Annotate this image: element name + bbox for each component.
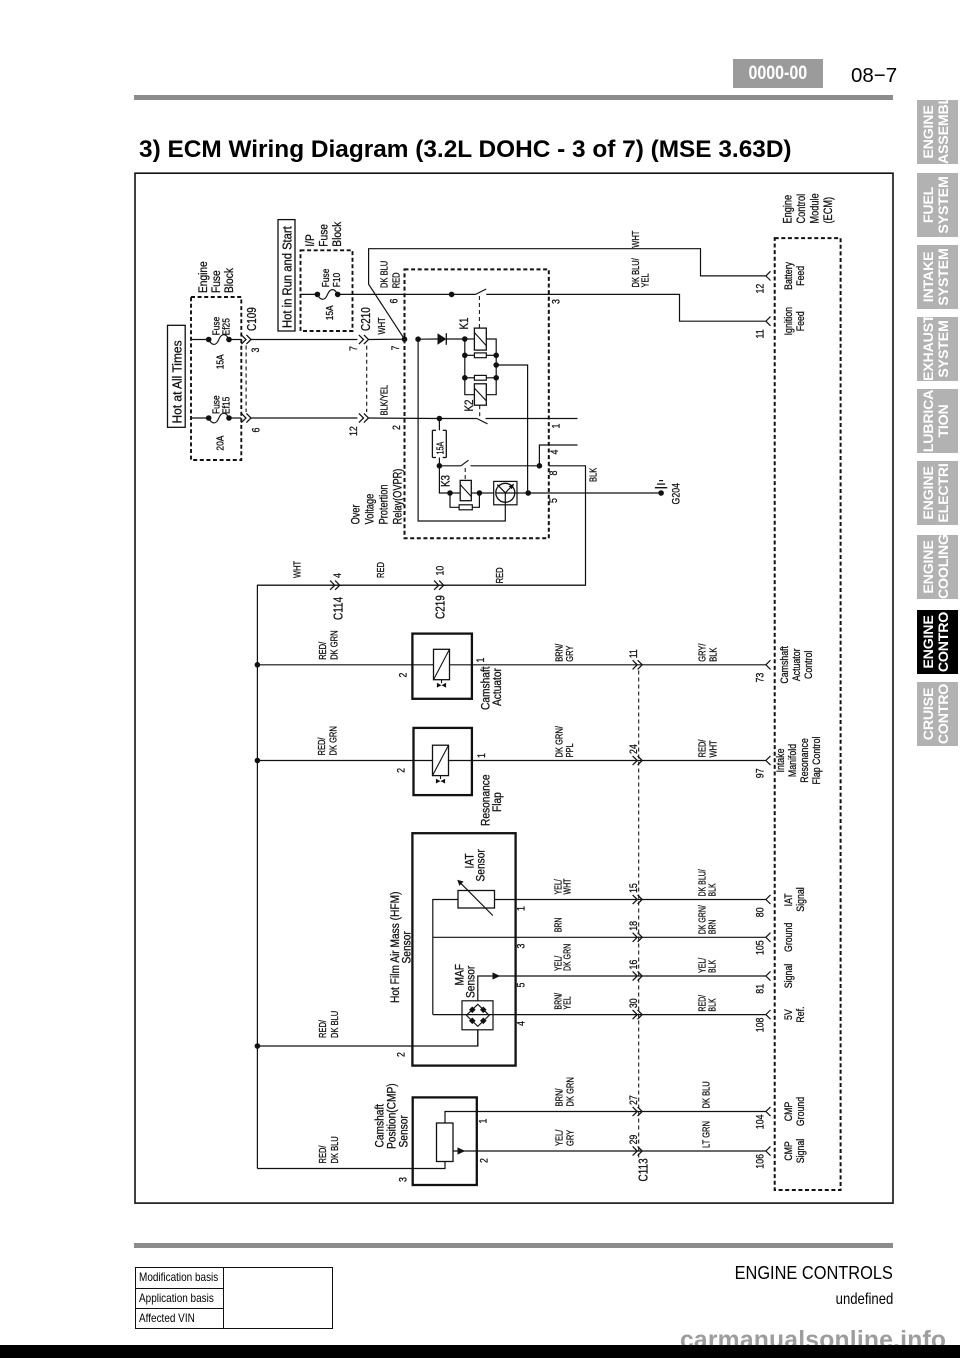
resistor R2 (parallel K2) [462, 375, 468, 381]
ECM pin 73 chevron [766, 660, 771, 669]
ECM pin 106 chevron [766, 1146, 771, 1155]
svg-text:I/P: I/P [304, 234, 317, 246]
ECM pin 11 chevron [766, 317, 771, 326]
svg-text:73: 73 [755, 672, 767, 682]
wire K3 coil feed from switch-node [439, 466, 450, 493]
node K3 switch feed [437, 463, 443, 469]
svg-text:6: 6 [389, 298, 401, 303]
page number 08-7 [851, 64, 897, 88]
ECM pin 97 chevron [766, 756, 771, 765]
svg-text:WHT: WHT [291, 560, 302, 578]
svg-text:Fuse: Fuse [210, 270, 223, 293]
svg-text:12: 12 [348, 426, 360, 436]
svg-text:Sensor: Sensor [401, 931, 414, 964]
ECM pin 80 chevron [766, 895, 771, 904]
node K1 coil left [462, 336, 468, 342]
connector C219 chevron pin 10 [434, 581, 444, 590]
svg-text:RED: RED [391, 272, 402, 288]
svg-text:6: 6 [251, 427, 263, 432]
svg-text:YEL: YEL [639, 273, 650, 287]
svg-text:Actuator: Actuator [491, 668, 504, 706]
svg-text:Over: Over [351, 504, 363, 524]
relay coil K1 [465, 338, 475, 340]
revision table [135, 1267, 333, 1329]
fuse Ef25 15A [206, 337, 212, 343]
svg-text:Feed: Feed [795, 266, 807, 286]
K2 switch on BLK/YEL wire [437, 416, 443, 422]
camshaft actuator box [412, 634, 472, 699]
C219/C113 connector dashed line [638, 671, 640, 1159]
svg-text:7: 7 [348, 346, 360, 351]
svg-text:C113: C113 [638, 1158, 651, 1181]
svg-text:C109: C109 [246, 307, 259, 331]
svg-text:Block: Block [223, 268, 236, 293]
K2 actuation dashed link [479, 405, 481, 417]
svg-text:8: 8 [548, 470, 560, 475]
transistor Q1 [479, 492, 493, 494]
wire down to transistor base [418, 339, 505, 521]
wire BLK to ground G204 [549, 492, 661, 494]
resonance flap solenoid [414, 760, 433, 762]
svg-text:4: 4 [332, 573, 344, 578]
label box Hot in Run and Start [278, 220, 295, 331]
svg-text:DK GRN: DK GRN [327, 726, 338, 755]
diagram frame [135, 173, 893, 1203]
svg-text:DK GRN: DK GRN [561, 944, 573, 971]
svg-text:DK BLU: DK BLU [329, 1136, 340, 1163]
svg-text:2: 2 [398, 672, 410, 677]
connector pin 24 chevron C219 line [633, 756, 643, 765]
svg-text:Fuse: Fuse [318, 224, 331, 247]
pin 4 stub outside OVPR [549, 444, 578, 446]
svg-text:Relay(OVPR): Relay(OVPR) [393, 469, 405, 525]
svg-text:2: 2 [396, 1052, 408, 1057]
svg-text:Ef25: Ef25 [221, 318, 233, 335]
ECM pin 81 chevron [766, 971, 771, 980]
svg-text:2: 2 [479, 1158, 491, 1163]
wire pin 8 to RED bus [257, 466, 585, 1169]
connector pin 18 chevron [633, 933, 643, 942]
wire RED/DK GRN to camshaft actuator [257, 664, 412, 666]
svg-text:WHT: WHT [707, 740, 718, 758]
node branch to transistor collector [493, 362, 499, 368]
fuse Ef15 20A [206, 415, 212, 421]
svg-text:10: 10 [435, 565, 447, 575]
wire CMP pin 2 with arrow [453, 1150, 766, 1152]
svg-text:BRN: BRN [552, 918, 564, 933]
svg-text:G204: G204 [671, 483, 683, 505]
svg-text:1: 1 [516, 906, 528, 911]
wire 5V ref pin 4 [433, 1014, 766, 1016]
wire Ef25 to C109 pin 3 [191, 339, 209, 341]
resistor R1 (parallel K1) [462, 353, 468, 359]
svg-text:12: 12 [755, 283, 767, 293]
svg-text:F10: F10 [331, 273, 343, 287]
svg-text:Ef15: Ef15 [221, 397, 233, 414]
svg-text:DK GRN: DK GRN [328, 630, 339, 659]
svg-text:2: 2 [391, 425, 403, 430]
svg-text:RED/: RED/ [317, 1020, 328, 1038]
svg-text:105: 105 [755, 940, 767, 955]
svg-text:5: 5 [548, 498, 560, 503]
svg-text:CMP: CMP [783, 1141, 795, 1161]
node bus to resonance flap [255, 758, 261, 764]
svg-text:106: 106 [755, 1154, 767, 1169]
svg-text:GRY/: GRY/ [696, 643, 707, 662]
wire IAT signal pin 1 [495, 899, 766, 901]
connector pin 27 chevron C113 [633, 1107, 643, 1116]
wire BLK/YEL C210 pin12 into OVPR [368, 417, 439, 420]
svg-text:WHT: WHT [561, 878, 573, 895]
node junction transistor drive [415, 336, 421, 342]
svg-text:DK BLU: DK BLU [700, 1081, 711, 1108]
svg-text:GRY: GRY [564, 646, 575, 662]
svg-text:LT GRN: LT GRN [700, 1121, 711, 1148]
MAF sensor bridge [462, 1001, 493, 1030]
svg-text:Flap Control: Flap Control [811, 737, 823, 785]
ECM pin 105 chevron [766, 933, 771, 942]
diode D1 [438, 333, 447, 345]
svg-text:20A: 20A [215, 435, 227, 451]
svg-text:C114: C114 [333, 597, 346, 620]
svg-text:BRN: BRN [706, 920, 718, 935]
footer section title [593, 1263, 893, 1284]
svg-text:Hot in Run and Start: Hot in Run and Start [280, 226, 295, 328]
svg-text:97: 97 [755, 768, 767, 778]
K1 switch on DK BLU/RED wire [449, 292, 455, 298]
footer rule [134, 1243, 893, 1248]
CMP sensor element [437, 1123, 454, 1162]
svg-text:DK BLU: DK BLU [329, 1011, 340, 1038]
svg-text:C210: C210 [360, 307, 373, 331]
OVPR dashed box [405, 269, 549, 538]
label box Hot at All Times [168, 325, 186, 427]
K3 switch [439, 465, 461, 467]
camshaft actuator solenoid [412, 664, 433, 666]
fuse box 15A (OVPR internal) [438, 419, 440, 431]
ground G204 [658, 490, 664, 496]
relay coil K2 [474, 384, 486, 405]
fuse F10 15A [315, 292, 321, 298]
connector pin 11 chevron C219 line [633, 660, 643, 669]
svg-text:Signal: Signal [795, 887, 807, 911]
svg-text:Camshaft: Camshaft [779, 646, 791, 684]
RED supply bus wire [257, 584, 585, 586]
wire WHT C210 pin7 to OVPR junction [368, 338, 404, 340]
watermark [680, 1327, 946, 1355]
svg-text:1: 1 [551, 423, 563, 428]
svg-text:C219: C219 [435, 595, 448, 619]
connector C109 [241, 335, 251, 344]
svg-text:WHT: WHT [376, 317, 387, 335]
svg-text:108: 108 [755, 1017, 767, 1032]
svg-text:Flap: Flap [491, 792, 504, 812]
wire DK GRN/PPL resonance flap to C219 [472, 760, 766, 762]
svg-text:DK BLU: DK BLU [379, 261, 390, 288]
svg-text:BRN/: BRN/ [553, 1088, 564, 1106]
K3 actuation dashed link [464, 468, 466, 480]
svg-text:YEL/: YEL/ [553, 1129, 564, 1146]
wire CMP pin 3 internal [413, 1162, 445, 1169]
svg-text:RED: RED [375, 562, 386, 578]
svg-text:Sensor: Sensor [398, 1115, 411, 1148]
bottom black bar [0, 1345, 960, 1358]
svg-text:RED/: RED/ [696, 739, 707, 757]
svg-text:Camshaft: Camshaft [374, 1103, 387, 1147]
node bus to camshaft actuator [255, 662, 261, 668]
svg-text:Engine: Engine [783, 195, 795, 224]
svg-text:RED: RED [494, 567, 505, 583]
svg-text:Ignition: Ignition [783, 307, 795, 335]
svg-text:RED/: RED/ [317, 641, 328, 659]
wire branch right rail to pin5 node [496, 365, 527, 493]
svg-text:BLK/YEL: BLK/YEL [378, 385, 389, 416]
svg-text:1: 1 [476, 753, 488, 758]
wire CMP pin 1 [445, 1112, 766, 1124]
svg-text:(ECM): (ECM) [823, 197, 835, 224]
svg-text:3: 3 [516, 943, 528, 948]
svg-text:GRY: GRY [564, 1130, 575, 1146]
ECM pin 104 chevron [766, 1107, 771, 1116]
svg-text:Engine: Engine [197, 261, 210, 293]
svg-text:CMP: CMP [783, 1101, 795, 1121]
pin 1 stub OVPR [549, 418, 578, 420]
wire BRN/GRY camshaft actuator to C219 [472, 664, 766, 666]
svg-text:104: 104 [755, 1114, 767, 1129]
header badge 0000-00 [733, 59, 823, 88]
svg-text:5V: 5V [783, 1009, 795, 1020]
svg-text:Protertion: Protertion [379, 484, 391, 524]
svg-text:15A: 15A [434, 442, 445, 455]
svg-text:4: 4 [516, 1021, 528, 1026]
connector pin 15 chevron [633, 895, 643, 904]
svg-text:3: 3 [551, 299, 563, 304]
svg-text:2: 2 [396, 768, 408, 773]
svg-text:PPL: PPL [564, 743, 575, 757]
svg-text:YEL: YEL [561, 996, 573, 1009]
svg-text:Feed: Feed [795, 311, 807, 331]
node junction pin7/battery-wire [402, 336, 408, 342]
svg-text:3: 3 [250, 347, 262, 352]
svg-text:WHT: WHT [630, 230, 641, 248]
connector C114 chevron pin 4 [330, 581, 340, 590]
left rail of coil network [465, 339, 475, 395]
svg-text:15A: 15A [215, 354, 227, 370]
svg-text:5: 5 [516, 982, 528, 987]
svg-text:K3: K3 [440, 475, 453, 487]
svg-text:Actuator: Actuator [791, 648, 803, 681]
svg-text:K1: K1 [458, 317, 471, 329]
wire WHT C109 to C210 [251, 339, 358, 341]
wire ground pin 3 [433, 936, 766, 938]
wire K1 coil to right rail [486, 339, 496, 355]
svg-text:81: 81 [755, 984, 767, 994]
wire BLK/YEL C109 to C210 [251, 417, 358, 419]
wire signal pin 5 with arrow [478, 976, 766, 1001]
svg-text:Resonance: Resonance [799, 738, 811, 783]
node bus to HFM [255, 1043, 261, 1049]
svg-text:Control: Control [803, 651, 815, 679]
svg-text:Manifold: Manifold [787, 744, 799, 777]
svg-text:11: 11 [755, 329, 767, 339]
svg-text:7: 7 [390, 345, 402, 350]
svg-text:Module: Module [810, 193, 822, 223]
wire MAF bottom to pin 2 feed [477, 1030, 479, 1046]
wire WHT battery feed (diagonal riser to ECM pin 12) [369, 249, 766, 340]
svg-text:1: 1 [475, 657, 487, 662]
wire RED/DK BLU to HFM pin 2 [257, 1030, 477, 1046]
svg-text:11: 11 [628, 649, 640, 659]
HFM internal left rail [433, 900, 458, 1015]
wire RED/DK GRN to resonance flap [257, 760, 413, 762]
svg-text:Hot at All Times: Hot at All Times [170, 340, 185, 423]
wire F10 to OVPR (DK BLU/RED) [301, 293, 318, 295]
ECM pin 12 chevron [766, 271, 771, 280]
wire pin 4 jog [539, 445, 548, 466]
wire RED/DK BLU to CMP pin 3 [257, 1168, 412, 1170]
svg-text:Block: Block [331, 221, 344, 246]
connector pin 16 chevron [633, 971, 643, 980]
svg-text:RED/: RED/ [317, 1145, 328, 1163]
svg-text:IAT: IAT [783, 893, 795, 906]
HFM sensor box [412, 833, 515, 1065]
svg-text:Signal: Signal [795, 1139, 807, 1163]
header rule [134, 95, 893, 100]
resonance flap box [414, 728, 472, 795]
node pin 5 output [525, 490, 531, 496]
K1 actuation dashed link [478, 296, 480, 328]
I/P fuse block (dashed box) [301, 250, 353, 331]
svg-text:3: 3 [398, 1177, 410, 1182]
svg-text:Position(CMP): Position(CMP) [386, 1083, 399, 1149]
svg-text:Battery: Battery [783, 262, 795, 290]
right rail of coil network [486, 355, 496, 394]
connector pin 30 chevron [633, 1010, 643, 1019]
svg-text:Signal: Signal [783, 964, 795, 988]
svg-text:BLK: BLK [706, 960, 718, 973]
svg-text:Ref.: Ref. [795, 1007, 807, 1023]
svg-text:BLK: BLK [706, 883, 718, 896]
connector pin 29 chevron C113 [633, 1146, 643, 1155]
svg-text:BLK: BLK [707, 648, 718, 662]
engine fuse block (dashed box) [191, 297, 241, 460]
svg-text:Voltage: Voltage [365, 494, 377, 525]
svg-text:15A: 15A [324, 305, 336, 321]
ECM dashed box [775, 238, 841, 1190]
svg-text:BLK: BLK [706, 998, 718, 1011]
svg-text:BLK: BLK [587, 468, 598, 482]
svg-text:K2: K2 [463, 399, 476, 411]
resistor R3 (parallel K3) [450, 493, 459, 507]
CMP sensor box [413, 1097, 477, 1185]
svg-text:1: 1 [478, 1118, 490, 1123]
node pin8 branch [537, 463, 543, 469]
svg-text:Ground: Ground [795, 1097, 807, 1126]
svg-text:RED/: RED/ [316, 737, 327, 755]
wire Ef15 to C109 pin 6 [191, 417, 209, 419]
IAT sensor thermistor [458, 891, 495, 909]
relay coil K3 [447, 490, 453, 496]
connector C210 [359, 335, 369, 344]
svg-text:DK GRN: DK GRN [564, 1077, 575, 1106]
ECM pin 108 chevron [766, 1010, 771, 1019]
svg-text:80: 80 [755, 907, 767, 917]
svg-text:4: 4 [549, 449, 561, 454]
svg-text:Control: Control [796, 194, 808, 224]
svg-text:Ground: Ground [783, 923, 795, 952]
svg-text:Sensor: Sensor [475, 849, 488, 882]
svg-text:Sensor: Sensor [465, 965, 478, 998]
title [139, 136, 792, 164]
svg-text:Intake: Intake [775, 748, 787, 772]
